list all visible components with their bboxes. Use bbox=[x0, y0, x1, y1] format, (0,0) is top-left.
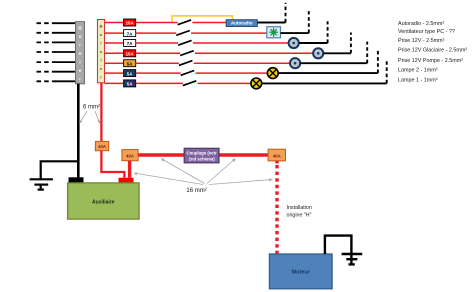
wire 6mm2 negative (black vertical) bbox=[77, 84, 80, 178]
svg-text:15A: 15A bbox=[126, 52, 135, 57]
switch S1 bbox=[178, 20, 192, 25]
wire left dashed row 6 bbox=[37, 71, 57, 73]
wire moteur negative to ground bbox=[325, 236, 352, 254]
wire left dashed row 5 bbox=[37, 61, 57, 63]
svg-text:Prise 12V Pompe - 2.5mm²: Prise 12V Pompe - 2.5mm² bbox=[398, 58, 463, 64]
terminal block Bornier (positive, cream) bbox=[97, 20, 104, 83]
battery terminal negative (black) bbox=[69, 177, 84, 183]
wire left row 3 bbox=[56, 41, 76, 43]
ventilateur (snowflake) bbox=[267, 27, 281, 38]
svg-text:Lampe 1 - 1mm²: Lampe 1 - 1mm² bbox=[398, 77, 438, 83]
fuse F1 15A bbox=[124, 19, 136, 26]
fuse 40A (couplage feed) bbox=[122, 150, 138, 161]
svg-text:e: e bbox=[79, 68, 82, 73]
fuse F3 7A bbox=[124, 40, 136, 47]
svg-text:6 mm²: 6 mm² bbox=[83, 105, 100, 111]
wire fuse to switch row 2 bbox=[136, 32, 177, 34]
wire lampe 1 output bbox=[262, 82, 387, 84]
wire switch to prise pompe bbox=[194, 62, 290, 64]
prise 12V socket P1 bbox=[289, 38, 299, 48]
arrow 6mm2 to black wire bbox=[79, 111, 87, 124]
wire dashed return 3 bbox=[327, 21, 329, 43]
svg-text:r: r bbox=[79, 43, 81, 48]
svg-text:Prise 12V - 2.5mm²: Prise 12V - 2.5mm² bbox=[398, 38, 445, 44]
fuse F6 5A bbox=[124, 70, 136, 77]
wire bornier to fuse row 3 bbox=[105, 42, 124, 44]
svg-text:Ventilateur type PC - ??: Ventilateur type PC - ?? bbox=[398, 29, 455, 35]
autoradio U1 bbox=[226, 20, 257, 27]
fuse 40A (installation H) bbox=[268, 149, 285, 161]
arrow 16mm2 to installation vertical bbox=[209, 178, 273, 184]
wire left row 7 bbox=[56, 80, 76, 82]
wire left row 5 bbox=[56, 61, 76, 63]
switch S7 bbox=[183, 81, 197, 86]
wire fuse to switch row 4 bbox=[136, 52, 181, 54]
wire dashed return 7 bbox=[386, 59, 388, 83]
svg-text:2nd schema): 2nd schema) bbox=[188, 156, 215, 161]
svg-text:n: n bbox=[79, 51, 82, 56]
switch S6 bbox=[181, 71, 195, 76]
wire ventilateur output bbox=[281, 32, 309, 34]
battery Moteur BT2 bbox=[269, 254, 332, 289]
wire dashed return 2 bbox=[308, 11, 310, 33]
wire left dashed row 1 bbox=[37, 22, 57, 24]
wire fuse to switch row 1 bbox=[136, 22, 178, 24]
wire bornier to fuse row 5 bbox=[105, 62, 124, 64]
wire prise glaciaire output bbox=[324, 52, 351, 54]
switch S4 bbox=[180, 51, 194, 56]
wire bornier to fuse row 4 bbox=[105, 52, 124, 54]
wire bornier to fuse row 6 bbox=[105, 72, 124, 74]
wire 16mm2 couplage run bbox=[138, 153, 268, 156]
svg-text:B: B bbox=[100, 24, 103, 29]
wire switch to lampe 2 bbox=[196, 72, 268, 74]
wire dashed to installation H (red) bbox=[275, 161, 278, 164]
svg-text:40A: 40A bbox=[126, 154, 134, 159]
wire switch to lampe 1 bbox=[198, 82, 251, 84]
fuse F2 7A bbox=[124, 30, 136, 37]
wire switch to prise 12V bbox=[193, 42, 289, 44]
switch S5 bbox=[179, 61, 193, 66]
wire fuse to switch row 5 bbox=[136, 62, 179, 64]
wire autoradio output bbox=[257, 22, 285, 24]
wire left dashed row 2 bbox=[37, 32, 57, 34]
wire dashed return 6 bbox=[377, 50, 379, 73]
wire bornier to fuse row 1 bbox=[105, 22, 124, 24]
wire bornier to fuse row 2 bbox=[105, 32, 124, 34]
wire bornier to fuse row 7 bbox=[105, 82, 124, 84]
svg-text:16 mm²: 16 mm² bbox=[186, 188, 206, 194]
wire 16mm2 battery + to fuse 40A bbox=[128, 161, 131, 178]
svg-text:40A: 40A bbox=[273, 153, 281, 158]
svg-text:Installation: Installation bbox=[287, 205, 312, 211]
wire switch to prise glaciaire bbox=[195, 52, 313, 54]
wire fuse to switch row 6 bbox=[136, 72, 181, 74]
svg-text:5A: 5A bbox=[127, 61, 133, 66]
wire switch to ventilateur bbox=[191, 32, 267, 34]
ground (moteur battery) bbox=[342, 252, 363, 264]
svg-text:15A: 15A bbox=[126, 21, 135, 26]
wire dashed return 4 bbox=[350, 33, 352, 54]
fuse F4 15A bbox=[124, 50, 136, 57]
svg-text:Moteur: Moteur bbox=[292, 270, 311, 276]
wire lampe 2 output bbox=[278, 72, 378, 74]
svg-text:5A: 5A bbox=[127, 71, 133, 76]
fuse 40A (bornier feed) bbox=[95, 141, 108, 150]
wire autoradio permanent feed (yellow) bbox=[172, 16, 232, 22]
svg-text:Prise 12V Glaciaire - 2.5mm²: Prise 12V Glaciaire - 2.5mm² bbox=[398, 47, 467, 53]
wire switch to autoradio bbox=[192, 22, 226, 24]
wire left dashed row 3 bbox=[37, 41, 57, 43]
wire fuse 40A output to battery + bbox=[101, 151, 124, 178]
terminal block Bornier (negative, gray) bbox=[76, 22, 85, 84]
svg-text:Autoradio - 2.5mm²: Autoradio - 2.5mm² bbox=[398, 21, 444, 27]
wire fuse to switch row 3 bbox=[136, 42, 178, 44]
svg-text:40A: 40A bbox=[98, 144, 106, 149]
svg-text:i: i bbox=[79, 60, 80, 65]
svg-text:7A: 7A bbox=[127, 41, 133, 46]
wire left row 1 bbox=[56, 22, 76, 24]
svg-text:Couplage (voir: Couplage (voir bbox=[187, 151, 217, 156]
wire dashed return 1 bbox=[285, 3, 287, 23]
arrow 16mm2 to battery vertical bbox=[134, 172, 203, 184]
svg-text:r: r bbox=[79, 77, 81, 82]
wire dashed return 5 bbox=[366, 42, 368, 64]
svg-text:5A: 5A bbox=[127, 82, 133, 87]
coupler (couplage) box bbox=[184, 148, 219, 163]
wire 6mm2 positive (red vertical to fuse 40A) bbox=[100, 83, 102, 142]
wire left row 6 bbox=[56, 71, 76, 73]
wire left row 2 bbox=[56, 32, 76, 34]
prise 12V glaciaire socket P2 bbox=[313, 48, 323, 58]
prise 12V pompe socket P3 bbox=[290, 58, 300, 68]
fuse F5 5A bbox=[124, 60, 136, 67]
svg-text:i: i bbox=[100, 58, 101, 63]
svg-text:Lampe 2 - 1mm²: Lampe 2 - 1mm² bbox=[398, 68, 438, 74]
wire left row 4 bbox=[56, 51, 76, 53]
ground (auxiliary battery) bbox=[30, 161, 78, 189]
svg-text:Auxiliaire: Auxiliaire bbox=[92, 200, 115, 206]
wire left dashed row 7 bbox=[37, 80, 57, 82]
battery terminal positive (red) bbox=[119, 178, 134, 184]
svg-text:Autoradio: Autoradio bbox=[231, 21, 253, 26]
svg-text:7A: 7A bbox=[127, 31, 133, 36]
battery Auxiliaire BT1 bbox=[68, 183, 140, 219]
arrow 16mm2 to left run bbox=[161, 159, 205, 184]
switch S3 bbox=[178, 40, 192, 45]
arrow 16mm2 to right run bbox=[207, 159, 236, 184]
wire prise 12V output bbox=[299, 42, 327, 44]
wire fuse to switch row 7 bbox=[136, 82, 183, 84]
arrow 6mm2 to red wire bbox=[95, 111, 101, 124]
lampe 1 L1 bbox=[251, 78, 262, 89]
svg-text:o: o bbox=[79, 34, 82, 39]
wire left dashed row 4 bbox=[37, 51, 57, 53]
svg-text:origine "H": origine "H" bbox=[287, 213, 312, 219]
switch S2 bbox=[176, 31, 190, 36]
lampe 2 L2 bbox=[267, 68, 278, 79]
wire prise pompe output bbox=[301, 62, 368, 64]
fuse F7 5A bbox=[124, 80, 136, 87]
